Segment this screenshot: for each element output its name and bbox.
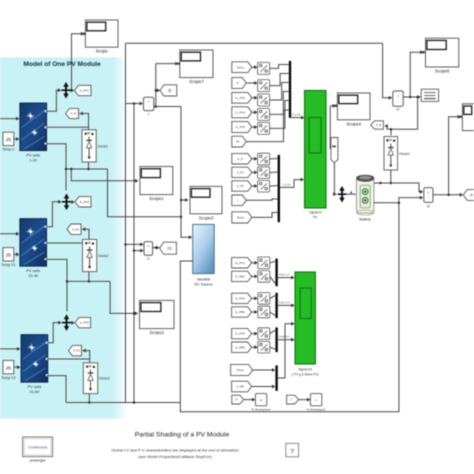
current measurement I1 bbox=[393, 91, 403, 112]
goto V_P2 bbox=[69, 345, 82, 355]
from tag IL_PV2 (lower group) bbox=[232, 293, 252, 303]
svg-text:IL_PB3: IL_PB3 bbox=[235, 345, 245, 349]
wire loop right down to I1 bbox=[383, 43, 392, 98]
svg-text:I: I bbox=[148, 113, 149, 117]
wire conv u4 to mux1 bbox=[270, 92, 289, 115]
svg-text:Temp: Temp bbox=[237, 368, 244, 372]
wire DC node to Scope3 bbox=[181, 199, 187, 201]
wire conv l1a to mux bbox=[270, 261, 275, 262]
svg-text:IL_PV1: IL_PV1 bbox=[236, 96, 246, 100]
svg-text:Scope4: Scope4 bbox=[346, 121, 361, 126]
wire conv m3 to mux2 bbox=[270, 185, 278, 188]
wire V_P to conv bbox=[252, 158, 257, 160]
wire V in2 bbox=[134, 250, 143, 252]
wire IL_PV1 to conv bbox=[252, 97, 257, 99]
wire conv l1b to mux bbox=[270, 276, 275, 283]
battery Battery bbox=[356, 175, 374, 222]
svg-text:Scope2: Scope2 bbox=[150, 330, 165, 335]
from tag IL_PV3 (upper group) bbox=[232, 122, 252, 133]
current source row2 bbox=[62, 194, 71, 210]
wire loop top bbox=[126, 42, 383, 44]
wire I1 out to display bbox=[403, 96, 419, 98]
svg-text:To Workspace2: To Workspace2 bbox=[306, 407, 326, 411]
wire IL_PB2 to conv bbox=[252, 311, 257, 313]
goto V_B bbox=[371, 121, 384, 129]
block To Workspace2 bbox=[306, 394, 326, 412]
wire conv m1 to mux2 bbox=[270, 158, 278, 161]
wire irradiance input row1 bbox=[0, 118, 18, 120]
wire Temp C2 to PV3 bbox=[14, 366, 19, 368]
converter block u4 bbox=[258, 108, 270, 120]
wire V_PB to mux D bbox=[252, 386, 275, 388]
converter block u3 bbox=[258, 94, 270, 106]
svg-text:S g Sel: S g Sel bbox=[292, 113, 301, 117]
junction DC node bbox=[180, 215, 183, 218]
wire IL_PV3 to conv bbox=[252, 126, 257, 128]
goto V_P1 bbox=[67, 224, 81, 234]
wire diode3 bottom stub bbox=[88, 394, 90, 403]
wire conv u3 to mux1 bbox=[270, 83, 289, 101]
from tag (vertical) battery control bbox=[331, 138, 338, 163]
wire to Scope7 bbox=[156, 63, 177, 65]
svg-text:25: 25 bbox=[6, 253, 12, 258]
svg-text:25: 25 bbox=[6, 137, 12, 142]
svg-text:?: ? bbox=[290, 448, 294, 455]
scope block Signal selector (green) 2 bbox=[292, 272, 319, 377]
svg-text:Temp C1: Temp C1 bbox=[1, 263, 15, 267]
converter block l1b bbox=[258, 271, 270, 283]
wire conv m2 to mux2 bbox=[270, 171, 278, 174]
goto IL_PV1 bbox=[75, 85, 92, 95]
svg-text:[I]: [I] bbox=[168, 89, 171, 93]
wire diode3 top to V_P2 bbox=[82, 351, 89, 363]
goto IL_PV2 bbox=[75, 197, 91, 207]
wire Temp to mux D bbox=[253, 369, 275, 371]
goto IL_PV3 bbox=[75, 317, 91, 327]
svg-text:IL_PV2: IL_PV2 bbox=[236, 110, 246, 114]
wire IL_PV1 node to Scope bbox=[72, 34, 83, 90]
svg-text:A: A bbox=[237, 81, 239, 85]
wire row1 bus bbox=[66, 168, 108, 170]
wire Temp to conv bbox=[252, 66, 257, 68]
wire IL_PB3 to conv bbox=[252, 346, 257, 348]
wire irradiance input row2 bbox=[0, 233, 18, 235]
svg-text:Signal th1: Signal th1 bbox=[298, 368, 312, 372]
svg-text:Model of One PV Module: Model of One PV Module bbox=[23, 61, 101, 68]
converter block u1 bbox=[258, 62, 270, 74]
wire loop left vertical bbox=[125, 43, 127, 402]
wire tag to battery source bbox=[334, 163, 335, 194]
wire Temp C to PV1 bbox=[14, 138, 18, 140]
scope Scope6 bbox=[426, 38, 459, 73]
wire mux lower 1 out bbox=[278, 277, 294, 279]
wire battery plus to I2 bbox=[374, 183, 422, 192]
svg-text:Scope: Scope bbox=[96, 49, 109, 54]
wire to To Workspace1 bbox=[244, 399, 254, 401]
wire V out to goto V bbox=[153, 247, 159, 249]
wire loop to current measurement bbox=[126, 103, 142, 105]
from tag I (mid group) bbox=[232, 195, 247, 206]
junction diode1-bus bbox=[87, 168, 90, 171]
svg-text:V_P2: V_P2 bbox=[237, 184, 244, 188]
wire conv l2b to mux bbox=[270, 312, 275, 315]
junction I1 branch down bbox=[416, 96, 419, 99]
svg-text:IL_PV3: IL_PV3 bbox=[80, 321, 90, 325]
wire diode2 bottom stub bbox=[88, 272, 90, 282]
wire to Scope4 bbox=[330, 105, 334, 107]
wire I signal vertical bbox=[155, 64, 157, 107]
wire PV2 bottom down to cs3 bbox=[47, 259, 67, 311]
svg-text:PV cells: PV cells bbox=[26, 269, 40, 273]
wire diode4 top stub bbox=[390, 129, 392, 135]
wire V_P2 to conv bbox=[252, 185, 257, 187]
from tag IL_PB3 (lower group) bbox=[232, 342, 252, 352]
wire conv u1 to mux1 bbox=[270, 65, 289, 69]
wire to Variable DC Source plus bbox=[181, 107, 191, 238]
wire middle vertical bbox=[133, 104, 135, 403]
diode Diode3 bbox=[83, 363, 110, 394]
wire PV1 mid to diode1 bbox=[47, 126, 89, 128]
wire PV3 mid to diode3 bbox=[48, 358, 90, 360]
svg-text:PV cells: PV cells bbox=[26, 154, 40, 158]
arrow into V_P1 bbox=[82, 227, 85, 231]
from tag V (to workspace 1) bbox=[232, 395, 244, 404]
mux lower 3 bbox=[275, 327, 277, 352]
junction scope tap on cs1 output bbox=[70, 89, 73, 92]
scope Scope5 (clipped) bbox=[462, 104, 474, 131]
goto [V] bbox=[160, 242, 177, 254]
constant Temp C (25) bbox=[2, 132, 15, 151]
svg-text:V_B: V_B bbox=[376, 123, 382, 127]
svg-text:powergui: powergui bbox=[30, 459, 46, 463]
scope Scope3 bbox=[190, 186, 222, 220]
from tag IL_PV1 (upper group) bbox=[232, 92, 252, 103]
node PV-subsystem shaded panel bbox=[0, 58, 128, 419]
wire to goto I bbox=[156, 89, 159, 91]
svg-text:V_P1: V_P1 bbox=[237, 171, 244, 175]
wire I1 to Scope6 bbox=[410, 52, 422, 97]
wire mux lower 2 out bbox=[278, 304, 294, 306]
constant Temp C2 (25) bbox=[1, 360, 15, 379]
svg-text:To Workspace1: To Workspace1 bbox=[251, 407, 271, 411]
svg-text:IB: IB bbox=[470, 193, 473, 197]
wire I2 out up to Scope5 bbox=[449, 117, 460, 195]
svg-text:Diode4: Diode4 bbox=[399, 152, 410, 156]
svg-text:Continuous: Continuous bbox=[28, 445, 47, 449]
from tag V_PB (bottom single) bbox=[232, 381, 252, 392]
wire V in1 bbox=[126, 243, 143, 245]
mux lower D bbox=[275, 365, 277, 391]
svg-text:Global I-V and P-V characteris: Global I-V and P-V characteristics are d… bbox=[111, 447, 238, 452]
wire cs2 to IL_PV2 bbox=[71, 201, 73, 203]
converter block m3 bbox=[258, 180, 270, 192]
from tag I (to workspace 2) bbox=[287, 395, 299, 404]
svg-text:IL_PV3: IL_PV3 bbox=[235, 332, 245, 336]
from tag 25 (upper group) bbox=[232, 136, 247, 147]
svg-text:IL_PV1: IL_PV1 bbox=[79, 89, 89, 93]
svg-text:IL_PV2: IL_PV2 bbox=[80, 200, 90, 204]
svg-text:Scope1: Scope1 bbox=[149, 196, 164, 201]
wire mux D up to green2 bbox=[278, 324, 294, 378]
measurement I2 bbox=[424, 188, 433, 209]
svg-text:IL_PV3: IL_PV3 bbox=[236, 125, 246, 129]
wire Temp direct to mux2 bbox=[252, 213, 278, 218]
converter block l2b bbox=[258, 306, 270, 318]
svg-text:Scope3: Scope3 bbox=[199, 215, 214, 220]
wire PV3 top to current source 3 bbox=[48, 323, 60, 343]
junction battery minus / return bbox=[398, 201, 401, 204]
wire source to battery bbox=[347, 193, 356, 195]
svg-text:I: I bbox=[316, 399, 317, 403]
wire conv l3b to mux bbox=[270, 347, 275, 349]
diode Diode4 bbox=[384, 137, 410, 171]
wire irradiance input row3 bbox=[0, 348, 19, 350]
from tag V_P2 (mid group) bbox=[232, 181, 252, 191]
converter block u5 bbox=[258, 122, 270, 134]
mux Mux1 bbox=[289, 61, 291, 118]
wire row2 bus bbox=[67, 280, 110, 282]
sum V measurement bbox=[144, 242, 153, 262]
svg-text:V_P1: V_P1 bbox=[72, 227, 79, 231]
junction diode3 bottom bus bbox=[88, 401, 91, 404]
svg-text:25: 25 bbox=[236, 140, 240, 144]
from tag V_P (mid group) bbox=[232, 154, 252, 164]
wire PV2 mid to diode2 bbox=[47, 242, 89, 244]
wire I1 down to diode4 top bbox=[387, 97, 418, 129]
converter block l3b bbox=[258, 341, 270, 353]
from tag Temp (bottom single) bbox=[231, 364, 253, 375]
wire to goto V_B bbox=[385, 126, 387, 129]
svg-text:Diode2: Diode2 bbox=[98, 254, 109, 258]
svg-text:IL_PB1: IL_PB1 bbox=[235, 275, 245, 279]
from tag IL_PV1 (lower group) bbox=[232, 258, 252, 268]
mux lower 1 bbox=[275, 258, 277, 286]
junction diode2-bus bbox=[88, 280, 91, 283]
port marker battery source bbox=[350, 191, 352, 193]
wire I measurement out bbox=[154, 106, 181, 108]
svg-text:V g Sel: V g Sel bbox=[282, 182, 291, 186]
converter block l2a bbox=[258, 293, 270, 305]
wire diode1 top to V_P bbox=[79, 114, 88, 130]
from tag IL_PB2 (lower group) bbox=[232, 307, 252, 317]
block model info (?) bbox=[286, 443, 299, 456]
svg-text:-: - bbox=[148, 249, 149, 253]
wire mux lower 3 out bbox=[278, 339, 294, 341]
svg-text:Signal th: Signal th bbox=[309, 211, 322, 215]
svg-text:DC Source: DC Source bbox=[194, 283, 213, 287]
svg-text:-: - bbox=[428, 195, 429, 199]
wire PV3 bottom to bottom bus bbox=[48, 376, 66, 403]
svg-text:I1: I1 bbox=[397, 108, 400, 112]
subsystem PV cells 41-60 bbox=[21, 335, 48, 395]
scope Scope4 bbox=[337, 93, 370, 126]
mux Mux2 bbox=[278, 155, 280, 223]
wire IL_PV3 to conv bbox=[252, 333, 257, 335]
scope Scope bbox=[85, 20, 118, 54]
block Variable DC Source bbox=[193, 224, 215, 286]
diode Diode2 bbox=[83, 239, 109, 271]
svg-text:1-20: 1-20 bbox=[29, 159, 37, 163]
wire I direct to mux2 bbox=[246, 199, 277, 200]
wire conv l3a to mux bbox=[270, 330, 275, 333]
svg-text:V_PB: V_PB bbox=[236, 385, 243, 389]
svg-text:Scope6: Scope6 bbox=[435, 69, 450, 74]
wire 25 tag to mux1 bbox=[246, 110, 288, 142]
wire down to vertical tag bbox=[329, 106, 332, 149]
from tag IL_PV3 (lower group) bbox=[232, 328, 252, 338]
wire diode1 bottom stub bbox=[88, 162, 90, 169]
wire to To Workspace2 bbox=[299, 399, 310, 401]
junction current measurement input bbox=[133, 102, 136, 105]
svg-text:IL_PV1: IL_PV1 bbox=[235, 261, 245, 265]
wire battery minus bbox=[374, 202, 399, 204]
wire A to conv bbox=[246, 82, 256, 84]
arrow into V_P bbox=[79, 112, 82, 116]
wire row2 bus to Scope2 bbox=[110, 281, 136, 313]
subsystem PV cells 21-40 bbox=[20, 219, 47, 279]
svg-text:Data 3+4: Data 3+4 bbox=[279, 300, 290, 304]
wire conv u5 to mux1 bbox=[270, 101, 289, 129]
wire conv l2a to mux bbox=[270, 296, 275, 299]
scope Scope7 bbox=[180, 50, 213, 84]
converter block m2 bbox=[258, 167, 270, 179]
goto IB (clipped) bbox=[463, 190, 474, 201]
wire PV2 top to current source 2 bbox=[47, 202, 61, 227]
svg-text:41-60: 41-60 bbox=[30, 390, 40, 394]
svg-text:( PV g & items PV): ( PV g & items PV) bbox=[292, 373, 319, 377]
wire cs1 to IL_PV1 bbox=[71, 89, 73, 91]
junction I1 out bbox=[409, 96, 412, 99]
svg-text:Diode1: Diode1 bbox=[98, 144, 109, 148]
wire mux2 to plot block bbox=[280, 180, 303, 188]
svg-text:-: - bbox=[148, 104, 149, 108]
converter block l3a bbox=[258, 328, 270, 340]
wire IL_PV2 to conv bbox=[252, 111, 257, 113]
goto [I] bbox=[160, 85, 177, 96]
svg-text:-: - bbox=[397, 99, 398, 103]
svg-text:IL_PB2: IL_PB2 bbox=[235, 310, 245, 314]
current measurement I bbox=[144, 97, 154, 116]
svg-text:Partial Shading of a PV Module: Partial Shading of a PV Module bbox=[135, 432, 230, 439]
subsystem PV cells 1-20 bbox=[20, 103, 47, 163]
svg-text:Temp C: Temp C bbox=[2, 148, 15, 152]
svg-text:IL_PV2: IL_PV2 bbox=[235, 297, 245, 301]
from tag IL_PV2 (upper group) bbox=[232, 107, 252, 118]
current source row1 bbox=[61, 82, 70, 98]
junction bottom bus / middle vertical bbox=[133, 401, 136, 404]
wire IL_PV2 to conv bbox=[252, 297, 257, 299]
svg-text:Temp: Temp bbox=[237, 216, 244, 220]
converter block m1 bbox=[258, 153, 270, 165]
svg-text:[V]: [V] bbox=[167, 246, 171, 250]
current source battery side bbox=[337, 186, 346, 202]
wire conv u2 to mux1 bbox=[270, 74, 289, 86]
display block Display bbox=[421, 89, 438, 101]
wire Temp C1 to PV2 bbox=[14, 253, 18, 255]
svg-text:V_P: V_P bbox=[238, 157, 244, 161]
wire IL_PV1 to conv bbox=[252, 262, 257, 264]
block To Workspace1 bbox=[251, 394, 271, 412]
mux lower 2 bbox=[275, 293, 277, 319]
svg-text:Diode3: Diode3 bbox=[99, 377, 110, 381]
arrow into V_P2 bbox=[82, 349, 85, 353]
wire row1 bus to Scope1 bbox=[71, 169, 137, 181]
converter block u2 bbox=[258, 80, 270, 92]
svg-text:25: 25 bbox=[6, 365, 12, 370]
wire IL_PB1 to conv bbox=[252, 275, 257, 277]
wire battery minus to I2 bbox=[399, 198, 422, 203]
svg-text:21-40: 21-40 bbox=[28, 274, 38, 278]
wire DC minus return loop bbox=[180, 203, 399, 412]
scope Scope1 bbox=[140, 167, 173, 202]
svg-text:I2: I2 bbox=[427, 205, 430, 209]
svg-text:Data 1+2: Data 1+2 bbox=[279, 273, 290, 277]
wire bottom bus left part bbox=[66, 402, 180, 404]
wire I2 out to goto IB bbox=[433, 194, 462, 196]
svg-text:I: I bbox=[291, 398, 292, 402]
svg-text:Variable: Variable bbox=[197, 278, 211, 282]
constant Temp C1 (25) bbox=[1, 248, 15, 267]
wire PV1 bottom down to cs2 bbox=[47, 144, 66, 191]
svg-text:Scope7: Scope7 bbox=[189, 79, 204, 84]
wire row1 bus right step to DC node bbox=[108, 169, 182, 217]
converter block l1a bbox=[258, 257, 270, 269]
from tag A (upper group) bbox=[232, 78, 247, 89]
junction scope2 wire / middle vertical bbox=[133, 312, 136, 315]
junction I2 out bbox=[447, 194, 450, 197]
diode Diode1 bbox=[82, 130, 108, 162]
from tag Temp (upper group) bbox=[232, 62, 252, 73]
goto V_P bbox=[66, 108, 79, 118]
svg-text:V_P: V_P bbox=[71, 112, 77, 116]
wire V_P1 to conv bbox=[252, 171, 257, 173]
svg-text:Temp C2: Temp C2 bbox=[1, 376, 15, 380]
from tag Temp (mid group) bbox=[232, 212, 252, 223]
svg-text:V_P2: V_P2 bbox=[73, 349, 80, 353]
svg-text:Temp: Temp bbox=[237, 65, 244, 69]
svg-text:Battery: Battery bbox=[359, 218, 371, 222]
scope block Signal selector (green) 1 bbox=[305, 91, 327, 220]
from tag IL_PB1 (lower group) bbox=[232, 271, 252, 281]
wire mux1 to plot block bbox=[291, 117, 303, 119]
wire diode2 top to V_P1 bbox=[82, 229, 89, 239]
current source row3 bbox=[62, 315, 71, 331]
svg-text:(see Model Properties/CallBack: (see Model Properties/CallBack StopFcn) bbox=[138, 454, 212, 459]
svg-text:PV cells: PV cells bbox=[28, 385, 42, 389]
scope Scope2 bbox=[140, 300, 175, 335]
from tag V_P1 (mid group) bbox=[232, 167, 252, 177]
wire diode4 bottom to battery plus bbox=[390, 170, 392, 183]
wire cs3 to IL_PV3 bbox=[71, 322, 73, 324]
block powergui Continuous bbox=[23, 437, 53, 463]
junction I signal bbox=[155, 89, 158, 92]
wire PV1 top to current source 1 bbox=[47, 90, 60, 111]
